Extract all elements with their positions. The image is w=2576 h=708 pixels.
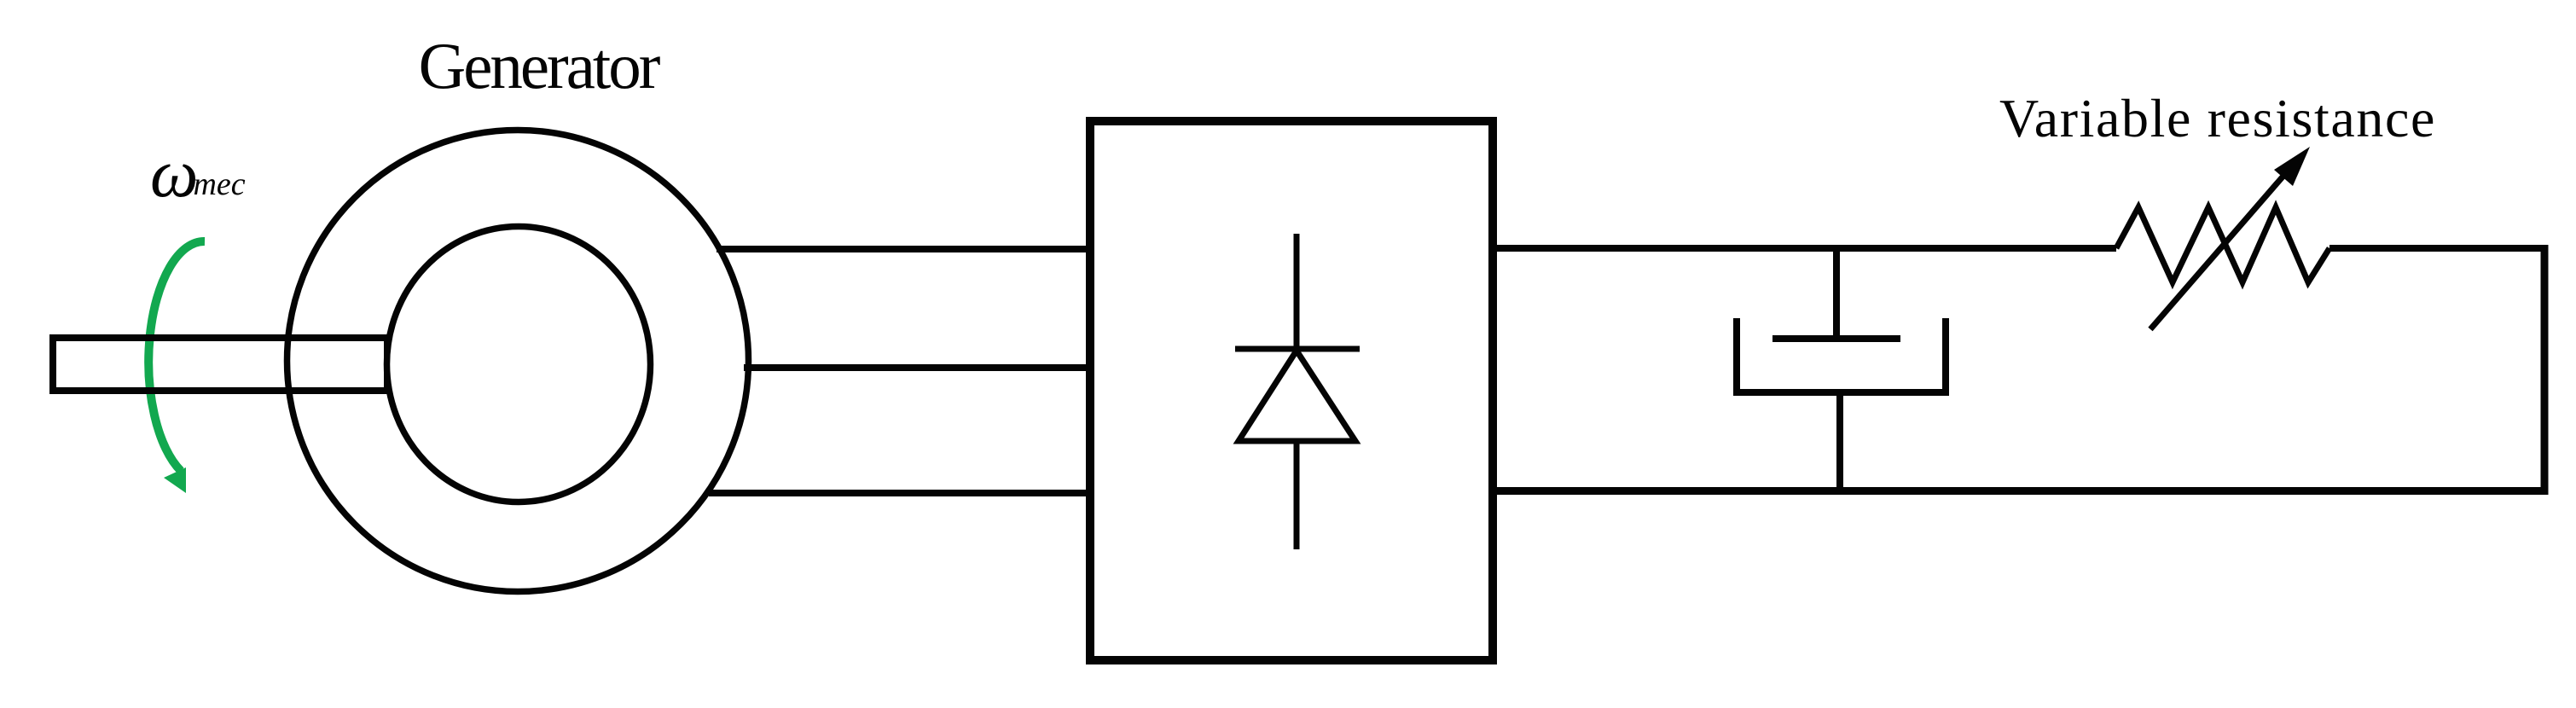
diode D1 cathode lead (top): [1294, 234, 1300, 351]
variable resistor R1 arrow shaft: [2150, 175, 2284, 329]
wire phase B (generator to rectifier, middle): [744, 364, 1094, 371]
wire DC+ rail (resistor to right corner): [2329, 245, 2549, 252]
capacitor C1 bottom lead: [1836, 392, 1843, 494]
svg-text:Generator: Generator: [419, 29, 660, 102]
capacitor C1 top lead: [1833, 245, 1840, 339]
wire phase C (generator to rectifier, bottom): [709, 490, 1094, 496]
shaft (mechanical input): [53, 338, 387, 391]
rotation arrow (green arc): [148, 241, 205, 471]
variable resistor R1 zigzag: [2116, 207, 2329, 282]
wire DC+ rail (rectifier to resistor): [1488, 245, 2116, 252]
svg-text:Variable resistance: Variable resistance: [1999, 88, 2436, 148]
diode D1 anode lead (bottom): [1294, 441, 1300, 549]
generator stator (outer circle): [287, 131, 749, 592]
wire DC- rail (bottom): [1488, 487, 2549, 495]
variable resistor R1 arrow head: [2274, 147, 2310, 186]
capacitor C1 top plate: [1772, 335, 1900, 342]
rotation arrow head (green): [164, 467, 186, 493]
diode D1 cathode bar: [1235, 346, 1360, 352]
diode D1 triangle (anode): [1239, 351, 1355, 441]
wire phase A (generator to rectifier, top): [717, 246, 1094, 252]
wire right side (down): [2541, 245, 2549, 495]
capacitor C1 bottom plate (cup): [1737, 318, 1946, 392]
shaft outline redrawn over arrow: [53, 338, 387, 391]
generator rotor (inner circle): [387, 227, 651, 502]
rectifier box U1: [1090, 121, 1493, 660]
